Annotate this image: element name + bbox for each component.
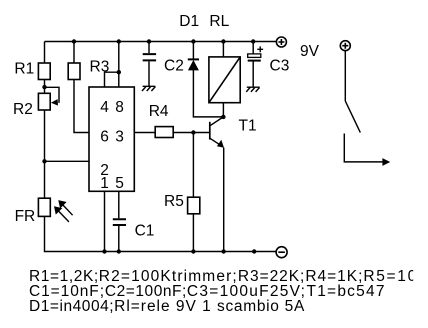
- svg-text:D1: D1: [179, 13, 199, 30]
- svg-text:C2: C2: [164, 57, 184, 74]
- svg-text:1: 1: [100, 175, 109, 192]
- svg-text:R1: R1: [14, 61, 34, 78]
- svg-text:C3: C3: [270, 58, 290, 75]
- svg-text:R5: R5: [164, 193, 184, 210]
- svg-text:C1: C1: [135, 223, 155, 240]
- svg-text:3: 3: [115, 129, 124, 146]
- svg-text:R3: R3: [90, 58, 110, 75]
- svg-text:FR: FR: [15, 208, 36, 225]
- svg-text:8: 8: [115, 99, 124, 116]
- svg-text:9V: 9V: [300, 43, 320, 60]
- svg-text:6: 6: [100, 129, 109, 146]
- svg-text:R2: R2: [13, 101, 33, 118]
- svg-text:D1=in4004;Rl=rele 9V 1 scambio: D1=in4004;Rl=rele 9V 1 scambio 5A: [29, 298, 305, 315]
- svg-text:R4: R4: [149, 103, 169, 120]
- svg-text:4: 4: [100, 99, 109, 116]
- svg-text:T1: T1: [239, 118, 257, 135]
- svg-text:RL: RL: [209, 13, 229, 30]
- svg-text:5: 5: [115, 175, 124, 192]
